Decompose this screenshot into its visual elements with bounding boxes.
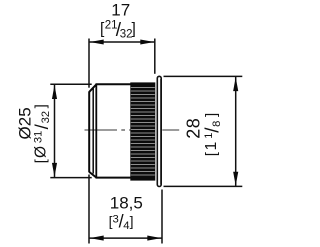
svg-text:1: 1 <box>203 142 220 151</box>
svg-text:8: 8 <box>211 121 223 127</box>
svg-text:Ø: Ø <box>33 146 50 158</box>
svg-text:32: 32 <box>40 111 52 123</box>
svg-text:28: 28 <box>184 118 204 139</box>
svg-text:4: 4 <box>123 220 129 232</box>
svg-text:]: ] <box>203 113 220 117</box>
svg-text:31: 31 <box>33 131 45 143</box>
svg-text:]: ] <box>33 104 50 108</box>
svg-text:]: ] <box>132 21 136 38</box>
svg-text:18,5: 18,5 <box>110 193 143 212</box>
svg-text:]: ] <box>130 213 134 229</box>
svg-text:17: 17 <box>111 0 130 19</box>
